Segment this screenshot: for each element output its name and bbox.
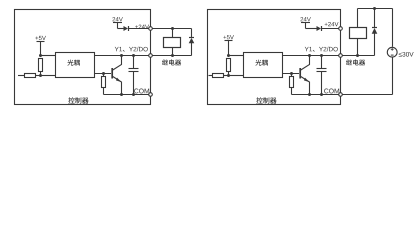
terminal COM left	[149, 93, 153, 97]
node coil K2 bottom junction	[356, 54, 359, 57]
diode D4	[372, 27, 377, 29]
wire diode to +24V terminal	[129, 28, 151, 30]
label 控制器	[256, 97, 262, 103]
wire relay coil top	[172, 29, 174, 38]
node capacitor top junction	[132, 54, 135, 57]
controller box	[208, 10, 341, 105]
label 继电器 left	[162, 59, 168, 65]
wire Y1 terminal to diode D4	[341, 55, 375, 57]
label +24V	[135, 25, 138, 28]
relay coil K1	[164, 38, 181, 48]
wire relay K2 top rail	[358, 8, 393, 10]
node relay bottom junction	[171, 54, 174, 57]
label +24V	[325, 23, 328, 26]
wire source to COM terminal	[341, 94, 393, 96]
node R1-R2 junction	[39, 74, 42, 77]
transistor Q1 emitter	[301, 77, 310, 95]
transistor Q1 emitter	[113, 77, 122, 95]
node relay rail junction	[373, 7, 376, 10]
terminal +24V left	[149, 27, 153, 31]
wire R3 bottom	[103, 88, 105, 95]
wire R1 bottom	[40, 72, 42, 76]
transistor Q1 collector	[113, 56, 122, 71]
wire diode D4 top	[374, 9, 376, 28]
wire C1 bottom	[321, 72, 323, 95]
wire C1 top	[133, 56, 135, 69]
terminal Y1/Y2 DO left	[149, 54, 153, 58]
wire 24V stem	[117, 23, 119, 29]
label 控制器	[68, 97, 74, 103]
resistor R3	[290, 77, 294, 88]
wire source bottom	[392, 57, 394, 94]
wire Y1 terminal to diode D2	[151, 55, 192, 57]
wire COM rail	[292, 94, 341, 96]
wire coil K2 top	[357, 9, 359, 28]
wire R3 top	[103, 74, 105, 77]
optocoupler U1 box	[244, 53, 283, 78]
+5V power symbol	[37, 41, 45, 43]
source plus mark	[391, 48, 394, 51]
wire +5V stem	[40, 42, 42, 56]
24V label	[300, 17, 303, 21]
wire source top	[392, 9, 394, 47]
terminal COM right	[339, 93, 343, 97]
label 光耦	[255, 60, 261, 66]
transistor Q1 base bar	[111, 68, 113, 79]
capacitor C1 plates	[129, 68, 139, 70]
node collector junction	[308, 54, 311, 57]
wire diode D4 bottom	[374, 34, 376, 56]
resistor R1	[227, 59, 231, 72]
label ≤30V	[399, 53, 402, 57]
wire R1 bottom	[228, 72, 230, 76]
node capacitor bottom junction	[320, 93, 323, 96]
+5V label	[223, 36, 226, 39]
node emitter junction	[308, 93, 311, 96]
voltage source V1	[387, 47, 397, 57]
wire junction to optocoupler pin2	[41, 75, 56, 77]
wire +5V stem	[228, 41, 230, 56]
transistor Q1 emitter arrow	[304, 78, 310, 83]
wire Y output rail	[283, 55, 341, 57]
wire to optocoupler pin1	[41, 55, 56, 57]
diode D2	[189, 37, 194, 39]
24V label	[112, 17, 115, 21]
label 继电器 right	[346, 59, 352, 65]
label COM	[134, 89, 138, 94]
source minus mark	[391, 54, 394, 56]
+5V power symbol	[225, 40, 233, 42]
optocoupler U1 box	[56, 53, 95, 78]
diode D1	[317, 26, 322, 31]
wire Y output rail	[95, 55, 151, 57]
label Y1、Y2/DO	[319, 47, 323, 51]
wire diode D2 bottom	[191, 43, 193, 56]
wire relay coil bottom	[172, 48, 174, 56]
node collector junction	[120, 54, 123, 57]
wire C1 bottom	[133, 72, 135, 95]
24V power symbol	[301, 22, 310, 24]
resistor R3	[102, 77, 106, 88]
controller box	[15, 10, 151, 105]
transistor Q1 collector	[301, 56, 310, 71]
wire to optocoupler pin1	[229, 55, 244, 57]
relay coil K2	[350, 28, 367, 39]
node R1-R2 junction	[227, 74, 230, 77]
label Y1、Y2/DO	[129, 47, 133, 51]
wire input stub	[209, 75, 213, 77]
transistor Q1 base bar	[299, 68, 301, 79]
terminal +24V right	[339, 27, 343, 31]
wire 24V stem	[305, 23, 307, 29]
wire +24V to relay K1	[151, 28, 192, 30]
+5V label	[35, 37, 38, 40]
wire C1 top	[321, 56, 323, 69]
node relay top junction	[171, 27, 174, 30]
wire diode to +24V terminal	[322, 28, 341, 30]
wire R3 top	[291, 74, 293, 77]
node base junction	[102, 72, 105, 75]
wire R2 to junction	[36, 75, 41, 77]
capacitor C1 plates	[317, 68, 327, 70]
node capacitor bottom junction	[132, 93, 135, 96]
wire 24V to diode	[118, 28, 124, 30]
wire junction to optocoupler pin2	[229, 75, 244, 77]
wire R2 to junction	[224, 75, 229, 77]
24V power symbol	[113, 22, 122, 24]
resistor R1	[39, 59, 43, 72]
terminal Y1/Y2 DO right	[339, 54, 343, 58]
transistor Q1 emitter arrow	[116, 78, 122, 83]
node emitter junction	[120, 93, 123, 96]
resistor R2	[25, 74, 36, 78]
wire R3 bottom	[291, 88, 293, 95]
diode D1	[124, 26, 129, 31]
wire optocoupler to base	[283, 73, 300, 75]
node capacitor top junction	[320, 54, 323, 57]
wire coil K2 bottom	[357, 39, 359, 56]
node +5V junction	[39, 54, 42, 57]
wire diode D2 top	[191, 29, 193, 38]
resistor R2	[213, 74, 224, 78]
wire 24V to diode	[306, 28, 317, 30]
label 光耦	[67, 60, 73, 66]
label COM	[324, 89, 328, 94]
node base junction	[290, 72, 293, 75]
wire optocoupler to base	[95, 73, 112, 75]
node +5V junction	[227, 54, 230, 57]
wire input stub	[18, 75, 25, 77]
wire COM rail	[104, 94, 151, 96]
